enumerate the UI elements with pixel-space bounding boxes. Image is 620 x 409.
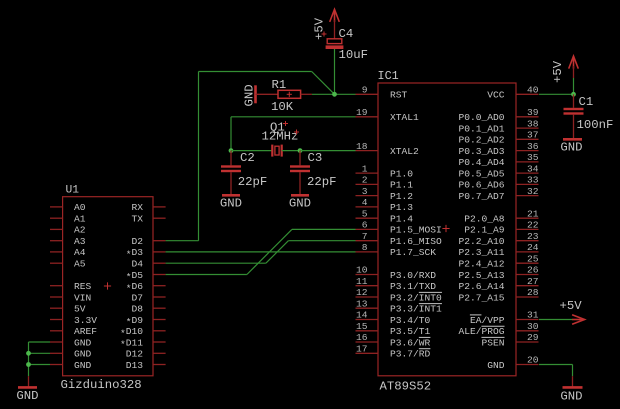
- svg-text:31: 31: [527, 310, 539, 321]
- wire net RST R1 to junction: [312, 93, 335, 95]
- svg-text:20: 20: [527, 355, 539, 366]
- svg-text:P2.6_A14: P2.6_A14: [458, 281, 504, 292]
- svg-text:A4: A4: [74, 247, 86, 258]
- IC1 right pin 20 GND: [487, 355, 539, 371]
- IC1 left pin 18 XTAL2: [356, 141, 420, 157]
- U1 right pin D12 row23: [126, 349, 166, 360]
- IC1 left pin 15 P3.5/T1: [356, 321, 431, 337]
- U1 left pin GND row22: [50, 337, 92, 348]
- svg-text:A2: A2: [74, 225, 86, 236]
- svg-text:3.3V: 3.3V: [74, 315, 97, 326]
- svg-text:25: 25: [527, 253, 539, 264]
- svg-text:30: 30: [527, 321, 539, 332]
- IC1 right pin 22 P2.1_A9: [464, 220, 539, 236]
- U1 left pin A1 row11: [50, 214, 86, 225]
- wire net D2 diagonal to junction: [312, 72, 335, 95]
- svg-text:29: 29: [527, 332, 539, 343]
- svg-text:P1.5_MOSI: P1.5_MOSI: [390, 225, 442, 236]
- wire net D2 top horizontal: [199, 71, 312, 73]
- IC1 left pin 17 P3.7/RD: [356, 344, 431, 360]
- svg-text:P1.4: P1.4: [390, 214, 413, 225]
- svg-text:P3.6/WR: P3.6/WR: [390, 337, 431, 348]
- capacitor C3: [290, 151, 310, 196]
- svg-text:18: 18: [356, 141, 368, 152]
- U1 left pin A5 row15: [50, 259, 86, 270]
- U1 right pin *D11 row22: [120, 337, 166, 350]
- svg-text:3: 3: [362, 186, 368, 197]
- svg-text:32: 32: [527, 186, 539, 197]
- IC1 reference label: [378, 69, 399, 83]
- IC1 left pin 19 XTAL1: [356, 107, 420, 123]
- svg-text:P3.1/TXD: P3.1/TXD: [390, 281, 436, 292]
- IC1 right pin 21 P2.0_A8: [464, 208, 539, 224]
- resistor R1 body: [278, 90, 301, 98]
- junction node VCC C1: [571, 92, 576, 97]
- svg-text:23: 23: [527, 231, 539, 242]
- svg-text:100nF: 100nF: [577, 118, 614, 132]
- R1 value label 10K: [271, 100, 294, 114]
- wire net D5 to pin 6: [292, 228, 356, 230]
- wire Q1 to crystal right node: [282, 150, 300, 152]
- wire +5V to VCC junction: [573, 78, 575, 94]
- svg-text:P2.3_A11: P2.3_A11: [458, 247, 504, 258]
- IC1 right pin 31 EA/VPP: [470, 310, 539, 326]
- svg-text:IC1: IC1: [378, 69, 399, 83]
- svg-text:P3.3/INT1: P3.3/INT1: [390, 304, 442, 315]
- C3 value label 22pF: [307, 175, 337, 189]
- svg-text:VCC: VCC: [487, 90, 505, 101]
- U1 right pin *D9 row20: [126, 315, 166, 328]
- U1 left pin GND row23: [50, 349, 92, 360]
- U1 right pin *D3 row14: [126, 247, 166, 260]
- U1 right pin D13 row24: [126, 360, 166, 371]
- svg-text:GND: GND: [74, 337, 92, 348]
- svg-text:P0.4_AD4: P0.4_AD4: [458, 157, 504, 168]
- svg-text:P2.2_A10: P2.2_A10: [458, 236, 504, 247]
- svg-text:P0.2_AD2: P0.2_AD2: [458, 135, 504, 146]
- svg-text:GND: GND: [74, 360, 92, 371]
- svg-text:39: 39: [527, 107, 539, 118]
- svg-text:GND: GND: [220, 196, 242, 210]
- ground GND symbol below C2: [220, 195, 242, 210]
- svg-text:P3.0/RXD: P3.0/RXD: [390, 270, 436, 281]
- svg-text:38: 38: [527, 118, 539, 129]
- IC1 left pin 1 P1.0: [356, 163, 414, 179]
- svg-text:6: 6: [362, 220, 368, 231]
- svg-text:14: 14: [356, 310, 368, 321]
- wire net XTAL2 to pin 18: [300, 150, 356, 152]
- IC1 right pin 32 P0.7_AD7: [458, 186, 538, 202]
- IC1 right pin 30 ALE/PROG: [458, 321, 538, 337]
- ground GND symbol below U1: [16, 376, 38, 403]
- svg-text:TX: TX: [131, 214, 143, 225]
- wire net VCC pin 40 to junction: [539, 93, 574, 95]
- IC1 left pin 8 P1.7_SCK: [356, 242, 437, 258]
- svg-text:P3.7/RD: P3.7/RD: [390, 349, 431, 360]
- wire net EA pin 31 to +5V: [539, 319, 573, 321]
- svg-text:C1: C1: [579, 95, 594, 109]
- svg-text:15: 15: [356, 321, 368, 332]
- svg-text:P3.2/INT0: P3.2/INT0: [390, 292, 442, 303]
- wire net D5 diagonal: [247, 229, 292, 274]
- junction node U1 GND bottom: [26, 362, 31, 367]
- C4 reference label: [339, 27, 354, 41]
- IC1 right pin 37 P0.2_AD2: [458, 130, 538, 146]
- IC1 left pin 4 P1.3: [356, 197, 414, 213]
- svg-text:10uF: 10uF: [339, 48, 369, 62]
- svg-text:GND: GND: [243, 84, 257, 106]
- svg-text:11: 11: [356, 276, 368, 287]
- U1 reference label: [66, 185, 80, 197]
- svg-text:34: 34: [527, 163, 539, 174]
- U1 left pin AREF row21: [50, 326, 97, 337]
- svg-text:P3.4/T0: P3.4/T0: [390, 315, 431, 326]
- IC1 right pin 40 VCC: [487, 85, 539, 101]
- svg-text:+5V: +5V: [313, 17, 327, 40]
- U1 left pin 3.3V row20: [50, 315, 97, 326]
- svg-text:EA/VPP: EA/VPP: [470, 315, 505, 326]
- svg-text:10K: 10K: [271, 100, 294, 114]
- svg-text:P2.7_A15: P2.7_A15: [458, 292, 504, 303]
- svg-text:26: 26: [527, 265, 539, 276]
- IC1 left pin 16 P3.6/WR: [356, 332, 431, 348]
- svg-text:+5V: +5V: [560, 299, 583, 313]
- svg-text:22: 22: [527, 220, 539, 231]
- U1 right pin TX row11: [131, 214, 165, 225]
- IC1 origin cross: [442, 225, 449, 232]
- svg-text:D4: D4: [131, 259, 143, 270]
- svg-text:C4: C4: [339, 27, 354, 41]
- svg-text:P2.4_A12: P2.4_A12: [458, 259, 504, 270]
- svg-text:27: 27: [527, 276, 539, 287]
- svg-text:13: 13: [356, 298, 368, 309]
- U1 left pin GND row24: [50, 360, 92, 371]
- svg-text:P0.7_AD7: P0.7_AD7: [458, 191, 504, 202]
- svg-text:33: 33: [527, 175, 539, 186]
- IC1 right pin 28 P2.7_A15: [458, 287, 538, 303]
- svg-text:GND: GND: [289, 196, 311, 210]
- wire net D4 to pin 7: [288, 240, 355, 242]
- U1 left pin A3 row13: [50, 236, 86, 247]
- svg-text:22pF: 22pF: [238, 175, 268, 189]
- IC1 left pin 6 P1.5_MOSI: [356, 220, 442, 236]
- svg-text:37: 37: [527, 130, 539, 141]
- svg-text:D13: D13: [126, 360, 144, 371]
- svg-text:P1.6_MISO: P1.6_MISO: [390, 236, 442, 247]
- U1 origin cross: [104, 282, 111, 289]
- ground GND symbol below C1: [560, 139, 582, 154]
- svg-text:A5: A5: [74, 259, 86, 270]
- wire crystal left node to Q1: [231, 150, 272, 152]
- svg-text:40: 40: [527, 85, 539, 96]
- ground GND symbol bottom right: [560, 376, 582, 404]
- svg-text:10: 10: [356, 265, 368, 276]
- U1 value label Gizduino328: [61, 378, 142, 392]
- Q1 reference label: [270, 121, 288, 135]
- wire net RST vertical from C4: [334, 49, 336, 94]
- U1 right pin RX row10: [131, 202, 165, 213]
- svg-text:VIN: VIN: [74, 292, 91, 303]
- IC1 right pin 34 P0.5_AD5: [458, 163, 538, 179]
- IC1 right pin 38 P0.1_AD1: [458, 118, 538, 134]
- svg-text:21: 21: [527, 208, 539, 219]
- wire net D4 horizontal: [166, 262, 266, 264]
- svg-text:P0.5_AD5: P0.5_AD5: [458, 168, 504, 179]
- svg-text:A3: A3: [74, 236, 86, 247]
- svg-text:1: 1: [362, 163, 368, 174]
- C3 reference label: [308, 151, 323, 165]
- wire net D4 diagonal: [266, 241, 289, 264]
- svg-text:RX: RX: [131, 202, 143, 213]
- svg-text:AT89S52: AT89S52: [380, 380, 432, 394]
- svg-text:P2.1_A9: P2.1_A9: [464, 225, 505, 236]
- svg-text:8: 8: [362, 242, 368, 253]
- U1 right pin *D5 row16: [126, 270, 166, 283]
- wire net GND U1 vertical: [28, 342, 30, 376]
- svg-text:D2: D2: [131, 236, 143, 247]
- wire net GND U1 bottom row: [29, 364, 51, 366]
- svg-text:5: 5: [362, 208, 368, 219]
- svg-text:16: 16: [356, 332, 368, 343]
- IC1 right pin 29 PSEN: [481, 332, 538, 348]
- wire net GND U1 top row: [29, 341, 51, 343]
- wire net D2 horizontal at U1: [166, 240, 199, 242]
- svg-text:PSEN: PSEN: [481, 337, 504, 348]
- wire net D2 vertical riser: [198, 72, 200, 241]
- svg-text:24: 24: [527, 242, 539, 253]
- svg-text:GND: GND: [16, 389, 38, 403]
- wire net XTAL1 horizontal: [231, 116, 356, 118]
- wire net D5 horizontal: [166, 274, 247, 276]
- C1 value label 100nF: [577, 118, 614, 132]
- svg-text:ALE/PROG: ALE/PROG: [458, 326, 504, 337]
- IC1 value label AT89S52: [380, 380, 432, 394]
- svg-text:P3.5/T1: P3.5/T1: [390, 326, 431, 337]
- svg-text:12MHz: 12MHz: [262, 130, 299, 144]
- IC1 left pin 10 P3.0/RXD: [356, 265, 437, 281]
- svg-text:2: 2: [362, 175, 368, 186]
- IC1 left pin 9 RST: [356, 85, 408, 101]
- svg-text:A0: A0: [74, 202, 86, 213]
- IC1 right pin 36 P0.3_AD3: [458, 141, 538, 157]
- svg-text:R1: R1: [272, 78, 287, 92]
- U1 left pin 5V row19: [50, 304, 86, 315]
- ground GND symbol below C3: [289, 195, 311, 210]
- svg-text:17: 17: [356, 344, 368, 355]
- svg-text:P1.7_SCK: P1.7_SCK: [390, 247, 436, 258]
- capacitor C2: [221, 151, 241, 196]
- IC1 left pin 13 P3.3/INT1: [356, 298, 443, 314]
- IC1 right pin 25 P2.4_A12: [458, 253, 538, 269]
- junction node RST: [332, 92, 337, 97]
- supply +5V symbol right: [551, 56, 578, 83]
- svg-text:+5V: +5V: [551, 60, 565, 83]
- svg-text:28: 28: [527, 287, 539, 298]
- svg-text:P2.5_A13: P2.5_A13: [458, 270, 504, 281]
- Q1 value label 12MHz: [262, 130, 300, 144]
- svg-text:A1: A1: [74, 214, 86, 225]
- supply +5V symbol at EA (horizontal): [560, 299, 585, 324]
- IC1 left pin 14 P3.4/T0: [356, 310, 431, 326]
- IC1 right pin 33 P0.6_AD6: [458, 175, 538, 191]
- svg-text:5V: 5V: [74, 304, 86, 315]
- IC1 left pin 7 P1.6_MISO: [356, 231, 443, 247]
- wire net GND pin 20 vertical: [572, 365, 574, 377]
- svg-text:36: 36: [527, 141, 539, 152]
- svg-text:XTAL2: XTAL2: [390, 146, 419, 157]
- U1 right pin *D10 row21: [120, 326, 166, 339]
- svg-text:12: 12: [356, 287, 368, 298]
- svg-text:GND: GND: [487, 360, 505, 371]
- svg-text:D12: D12: [126, 349, 144, 360]
- wire net RST junction to pin 9: [335, 93, 356, 95]
- IC1 right pin 35 P0.4_AD4: [458, 152, 538, 168]
- crystal Q1: [272, 145, 281, 157]
- capacitor C1: [564, 94, 584, 139]
- U1 right pin D7 row18: [131, 292, 165, 303]
- U1 left pin A4 row14: [50, 247, 86, 258]
- U1 right pin D4 row15: [131, 259, 165, 270]
- wire net GND pin 20 horizontal: [539, 364, 573, 366]
- IC1 right pin 39 P0.0_AD0: [458, 107, 538, 123]
- U1 right pin D2 row13: [131, 236, 165, 247]
- wire GND to R1 left lead: [256, 93, 279, 95]
- svg-text:C3: C3: [308, 151, 323, 165]
- supply +5V symbol top: [313, 9, 340, 40]
- svg-text:XTAL1: XTAL1: [390, 112, 419, 123]
- svg-text:GND: GND: [74, 349, 92, 360]
- C2 value label 22pF: [238, 175, 268, 189]
- junction node crystal left: [229, 148, 234, 153]
- IC1 left pin 5 P1.4: [356, 208, 414, 224]
- svg-text:P2.0_A8: P2.0_A8: [464, 214, 505, 225]
- svg-text:35: 35: [527, 152, 539, 163]
- svg-text:9: 9: [362, 85, 368, 96]
- svg-text:19: 19: [356, 107, 368, 118]
- svg-text:D7: D7: [131, 292, 143, 303]
- C2 reference label: [240, 151, 255, 165]
- svg-text:P0.3_AD3: P0.3_AD3: [458, 146, 504, 157]
- IC1 right pin 26 P2.5_A13: [458, 265, 538, 281]
- svg-text:RES: RES: [74, 281, 92, 292]
- ground GND symbol at R1 (rotated): [243, 84, 257, 106]
- IC1 right pin 23 P2.2_A10: [458, 231, 538, 247]
- svg-text:GND: GND: [560, 390, 582, 404]
- IC1 left pin 2 P1.1: [356, 175, 414, 191]
- svg-text:P1.0: P1.0: [390, 168, 413, 179]
- svg-text:4: 4: [362, 197, 368, 208]
- svg-text:U1: U1: [66, 185, 80, 197]
- capacitor C4 polarized: [322, 32, 344, 50]
- svg-text:P1.1: P1.1: [390, 180, 413, 191]
- U1 right pin D8 row19: [131, 304, 165, 315]
- IC U1 box outline Gizduino328: [63, 197, 153, 376]
- svg-text:P0.6_AD6: P0.6_AD6: [458, 180, 504, 191]
- svg-text:D8: D8: [131, 304, 143, 315]
- IC1 right pin 24 P2.3_A11: [458, 242, 538, 258]
- IC IC1 box outline AT89S52: [378, 83, 516, 376]
- svg-text:7: 7: [362, 231, 368, 242]
- IC1 left pin 3 P1.2: [356, 186, 414, 202]
- svg-text:Gizduino328: Gizduino328: [61, 378, 142, 392]
- U1 left pin A0 row10: [50, 202, 86, 213]
- C1 reference label: [579, 95, 594, 109]
- svg-text:AREF: AREF: [74, 326, 97, 337]
- svg-text:C2: C2: [240, 151, 255, 165]
- R1 reference label: [272, 78, 287, 92]
- wire net GND U1 middle row: [29, 352, 51, 354]
- IC1 left pin 12 P3.2/INT0: [356, 287, 443, 303]
- U1 left pin A2 row12: [50, 225, 86, 236]
- svg-text:P0.0_AD0: P0.0_AD0: [458, 112, 504, 123]
- junction node U1 GND middle: [26, 351, 31, 356]
- wire net D3 straight to pin 8: [166, 251, 356, 253]
- U1 left pin RES row17: [50, 281, 92, 292]
- U1 left pin VIN row18: [50, 292, 91, 303]
- svg-text:P1.3: P1.3: [390, 202, 413, 213]
- U1 right pin *D6 row17: [126, 281, 166, 294]
- IC1 left pin 11 P3.1/TXD: [356, 276, 437, 292]
- junction node crystal right: [298, 148, 303, 153]
- wire net XTAL1 vertical: [230, 117, 232, 151]
- svg-text:22pF: 22pF: [307, 175, 337, 189]
- svg-text:RST: RST: [390, 90, 408, 101]
- svg-text:P0.1_AD1: P0.1_AD1: [458, 123, 504, 134]
- R1 right lead: [301, 93, 312, 95]
- IC1 right pin 27 P2.6_A14: [458, 276, 538, 292]
- svg-text:P1.2: P1.2: [390, 191, 413, 202]
- svg-text:GND: GND: [560, 141, 582, 155]
- C4 value label 10uF: [339, 48, 369, 62]
